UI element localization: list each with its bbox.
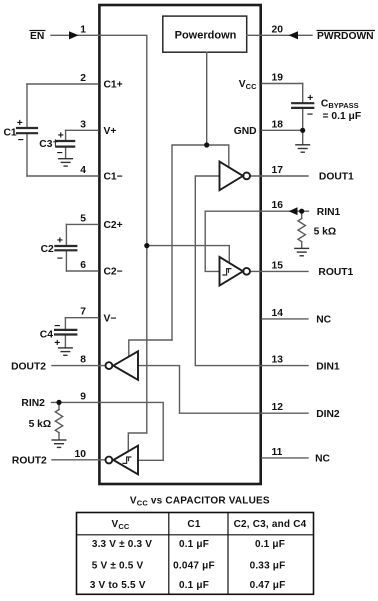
svg-text:0.1 μF: 0.1 μF: [255, 539, 285, 550]
svg-text:V−: V−: [104, 313, 117, 324]
svg-text:2: 2: [80, 73, 86, 84]
svg-text:DIN2: DIN2: [316, 409, 340, 420]
svg-text:3.3 V ± 0.3 V: 3.3 V ± 0.3 V: [92, 539, 152, 550]
svg-text:C2+: C2+: [104, 220, 123, 231]
svg-text:−: −: [307, 110, 313, 121]
svg-text:−: −: [18, 135, 24, 146]
svg-text:5 kΩ: 5 kΩ: [314, 227, 337, 238]
svg-text:+: +: [54, 338, 60, 349]
svg-text:8: 8: [80, 355, 86, 366]
svg-text:15: 15: [272, 260, 284, 271]
svg-text:5 kΩ: 5 kΩ: [29, 419, 52, 430]
svg-text:12: 12: [272, 402, 284, 413]
svg-text:19: 19: [272, 73, 284, 84]
svg-text:0.33 μF: 0.33 μF: [250, 561, 286, 572]
svg-text:0.1 μF: 0.1 μF: [179, 539, 209, 550]
svg-text:+: +: [58, 131, 64, 142]
svg-text:C1: C1: [187, 519, 200, 530]
svg-text:−: −: [54, 321, 60, 332]
svg-text:DIN1: DIN1: [316, 361, 340, 372]
svg-text:3 V to 5.5 V: 3 V to 5.5 V: [90, 580, 146, 591]
svg-text:10: 10: [75, 449, 87, 460]
svg-text:9: 9: [80, 391, 86, 402]
svg-text:C1+: C1+: [104, 80, 123, 91]
svg-text:GND: GND: [234, 126, 257, 137]
svg-text:+: +: [307, 93, 313, 104]
svg-text:C2−: C2−: [104, 267, 123, 278]
svg-text:C2, C3, and C4: C2, C3, and C4: [234, 519, 307, 530]
svg-text:NC: NC: [315, 454, 330, 465]
svg-text:5 V ± 0.5 V: 5 V ± 0.5 V: [92, 561, 144, 572]
svg-text:VCC: VCC: [239, 79, 257, 91]
svg-text:RIN2: RIN2: [21, 398, 45, 409]
svg-text:RIN1: RIN1: [317, 207, 341, 218]
svg-text:13: 13: [272, 355, 284, 366]
svg-text:1: 1: [80, 24, 86, 35]
svg-text:0.047 μF: 0.047 μF: [173, 561, 215, 572]
svg-text:DOUT1: DOUT1: [319, 172, 354, 183]
svg-text:CBYPASS: CBYPASS: [321, 99, 359, 111]
svg-text:V+: V+: [104, 126, 117, 137]
svg-text:PWRDOWN: PWRDOWN: [317, 31, 374, 42]
svg-text:+: +: [17, 118, 23, 129]
svg-text:0.1 μF: 0.1 μF: [179, 580, 209, 591]
svg-text:C3†: C3†: [39, 139, 58, 150]
svg-text:14: 14: [272, 308, 284, 319]
svg-text:−: −: [57, 253, 63, 264]
svg-text:−: −: [57, 148, 63, 159]
svg-text:C1−: C1−: [104, 172, 123, 183]
svg-text:3: 3: [80, 119, 86, 130]
svg-text:= 0.1 μF: = 0.1 μF: [323, 111, 362, 122]
svg-text:18: 18: [272, 119, 284, 130]
svg-text:DOUT2: DOUT2: [11, 361, 46, 372]
svg-text:ROUT1: ROUT1: [318, 267, 353, 278]
svg-text:7: 7: [80, 307, 86, 318]
svg-text:Powerdown: Powerdown: [175, 30, 237, 42]
svg-text:ROUT2: ROUT2: [12, 456, 47, 467]
svg-text:17: 17: [272, 165, 284, 176]
svg-text:11: 11: [272, 447, 283, 458]
svg-text:C1: C1: [4, 128, 17, 139]
svg-text:C4: C4: [40, 330, 53, 341]
svg-text:20: 20: [272, 24, 284, 35]
svg-text:VCC vs CAPACITOR VALUES: VCC vs CAPACITOR VALUES: [130, 496, 270, 508]
svg-text:0.47 μF: 0.47 μF: [250, 580, 286, 591]
svg-text:6: 6: [80, 260, 86, 271]
svg-text:EN: EN: [30, 31, 44, 42]
svg-text:5: 5: [80, 213, 86, 224]
svg-text:C2: C2: [41, 244, 54, 255]
svg-text:4: 4: [80, 165, 86, 176]
svg-text:NC: NC: [316, 315, 331, 326]
svg-text:VCC: VCC: [111, 519, 129, 531]
svg-text:+: +: [57, 235, 63, 246]
svg-text:16: 16: [272, 200, 284, 211]
